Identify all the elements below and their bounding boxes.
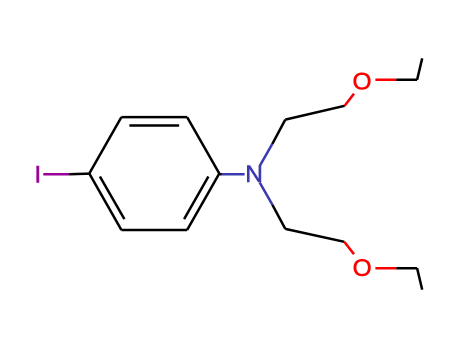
svg-text:O: O: [352, 68, 371, 95]
benzene ring edge C5-C4 (left-bottom slant): [89, 174, 121, 231]
bond O1-C9 black half (upper methyl bond): [396, 79, 417, 82]
benzene ring edge C6-C5 (bottom): [121, 229, 187, 232]
bond N1-C7 black half (upper chain): [272, 120, 285, 144]
bond C1-N black stub: [219, 173, 221, 176]
bond N1-C10 black half (lower chain): [272, 205, 285, 229]
bond O2-C12 red half (lower methyl bond): [375, 267, 396, 270]
bond N1-C10 blue half (lower chain): [260, 183, 273, 205]
benzene ring double bond inner line (left-bottom): [100, 177, 125, 220]
bond I1-C4 black half: [69, 172, 89, 175]
bond C11-O2 red stub (lower chain): [344, 242, 354, 254]
bond O2-C12 black half (lower methyl bond): [396, 267, 417, 270]
bond C1-N blue part: [222, 173, 245, 176]
bond I1-C4 purple half: [43, 173, 69, 176]
bond C10-C11 (lower chain): [285, 229, 344, 242]
benzene ring edge C1-C6 (right-bottom slant): [187, 174, 219, 231]
bond N1-C7 blue half (upper chain): [260, 144, 273, 166]
benzene ring edge C3-C2 (top): [121, 116, 187, 119]
bond C8-O1 red stub (upper chain): [345, 94, 354, 106]
svg-text:O: O: [353, 255, 372, 282]
benzene ring double bond inner line (right-bottom): [184, 177, 208, 220]
svg-text:I: I: [34, 161, 41, 188]
benzene ring double bond inner line (top): [129, 124, 179, 127]
benzene ring edge C2-C1 (right-top slant): [187, 117, 219, 173]
bond C9 methyl tick (upper): [417, 58, 422, 80]
bond C12 methyl tick (lower): [417, 268, 422, 290]
benzene ring edge C4-C3 (left-top slant): [89, 117, 121, 173]
bond O1-C9 red half (upper methyl bond): [375, 79, 396, 82]
bond C7-C8 (upper chain): [285, 106, 344, 120]
